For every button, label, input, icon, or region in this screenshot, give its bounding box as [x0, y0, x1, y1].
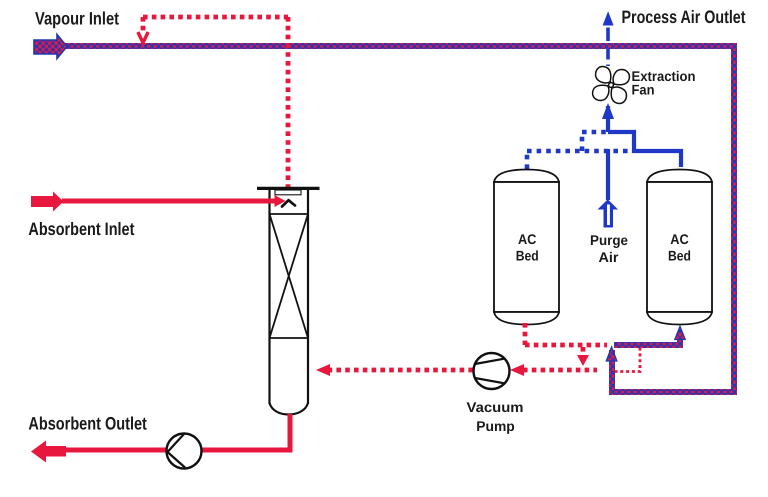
wire: red dotted vertical to column top	[286, 17, 291, 187]
node: red arrowhead toward column	[316, 364, 330, 376]
wire: blue solid purge riser	[606, 149, 610, 200]
vacuum pump	[474, 353, 510, 389]
svg-text:Vapour Inlet: Vapour Inlet	[35, 9, 119, 29]
wire: blue dotted vertical jog	[580, 132, 585, 151]
extraction fan icon	[590, 64, 631, 105]
wire: blue solid branch to right AC bed	[608, 132, 681, 167]
packing section bottom line	[270, 337, 309, 339]
svg-text:Bed: Bed	[668, 248, 691, 264]
wire: checkered riser to bed junction	[609, 350, 615, 395]
svg-text:Process Air Outlet: Process Air Outlet	[622, 7, 746, 27]
node: red arrowhead into column distributor	[275, 195, 286, 207]
wire: absorbent inlet red line	[62, 199, 276, 204]
wire: red dotted from left bed bottom	[523, 323, 528, 345]
wire: blue dashed process air outlet line	[606, 28, 610, 67]
wire: red dotted vacuum suction line right of pump	[523, 368, 597, 373]
wire: main vapour line (checkered) from inlet arrow right, down right edge, to bottom	[65, 43, 737, 49]
wire: checkered right-side vertical	[731, 43, 737, 395]
wire: blue solid riser from purge line to fan	[606, 106, 610, 132]
node: red arrowhead down	[577, 355, 589, 366]
svg-text:Pump: Pump	[476, 418, 515, 434]
column lid flange	[257, 187, 320, 190]
node: blue arrowhead below fan	[602, 103, 614, 119]
node: blue arrowhead process air outlet	[603, 11, 614, 25]
wire: absorbent outlet drop from column	[288, 414, 293, 450]
vapour inlet block arrow	[34, 35, 67, 59]
packing section top line	[270, 213, 309, 215]
distributor squiggle	[282, 200, 295, 206]
wire: red dotted drop to vacuum line	[581, 347, 586, 355]
wire: absorbent outlet horizontal	[64, 448, 293, 453]
absorber column	[257, 188, 320, 414]
wire: checkered line to right bed bottom	[614, 342, 680, 348]
pump on outlet line	[167, 434, 202, 469]
wire: thin red dotted bypass	[615, 348, 641, 372]
svg-text:Air: Air	[599, 249, 620, 265]
svg-text:Vacuum: Vacuum	[467, 399, 524, 415]
vessel: right AC bed	[647, 170, 712, 325]
wire: red dotted vacuum discharge line to column	[327, 368, 473, 373]
wire: red dotted recycle loop top horizontal	[143, 15, 288, 20]
wire: red dotted recycle loop left drop	[141, 17, 146, 31]
svg-text:Purge: Purge	[590, 232, 628, 248]
svg-text:Absorbent Inlet: Absorbent Inlet	[28, 219, 134, 239]
distributor box	[275, 190, 301, 195]
column walls	[268, 190, 270, 404]
absorbent inlet block arrow	[31, 192, 64, 212]
column bottom cap	[270, 403, 309, 415]
svg-text:Fan: Fan	[632, 82, 655, 98]
node: red arrowhead into vacuum pump	[510, 364, 524, 376]
node: checkered arrowhead up into vapour junction	[606, 347, 617, 361]
vessel: left AC bed	[494, 170, 559, 325]
purge air open block arrow	[598, 199, 619, 227]
wire: checkered stub up to right bed	[677, 339, 683, 349]
wire: blue dotted horizontal to fan riser	[582, 130, 606, 135]
svg-text:Bed: Bed	[516, 248, 539, 264]
svg-text:AC: AC	[670, 231, 689, 247]
node: open arrowhead onto vapour line	[138, 32, 148, 43]
svg-text:Absorbent Outlet: Absorbent Outlet	[28, 414, 147, 434]
wire: blue dotted from left bed top	[525, 151, 530, 169]
wire: red dotted horizontal under beds	[525, 343, 607, 348]
wire: checkered bottom horizontal	[609, 389, 737, 395]
node: checkered arrowhead into right bed	[675, 326, 685, 339]
wire: blue dotted horizontal header	[527, 149, 632, 154]
absorbent outlet block arrow	[31, 441, 66, 463]
packing X diagonals	[270, 214, 309, 338]
svg-text:AC: AC	[518, 231, 537, 247]
